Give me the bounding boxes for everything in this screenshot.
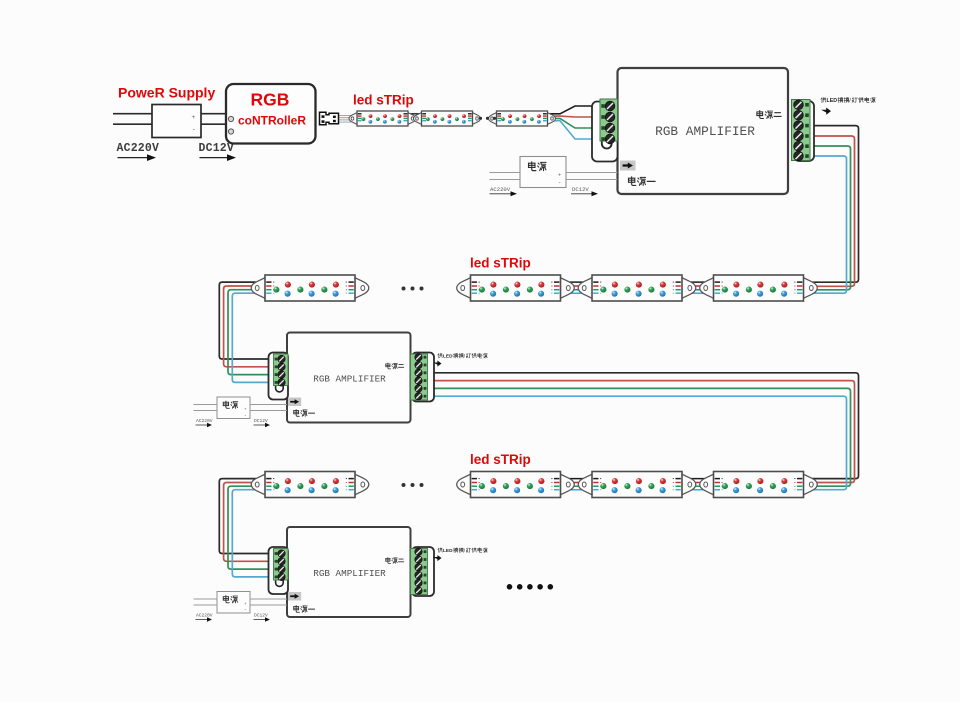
arrow AC220V [118,154,157,161]
wire link between strip1 modules [403,114,427,121]
power adapter row3 label [223,596,237,603]
wire link strip3 modules gap2 [677,479,719,490]
svg-text:DC12V: DC12V [254,613,268,619]
amplifier 1 output terminal housing [794,101,814,161]
amplifier 3 DC input icon [288,592,301,601]
wire amplifier1 output red to strip2 [808,136,855,286]
svg-text:DC12V: DC12V [572,186,589,193]
amplifier 3 output terminal housing [412,547,434,596]
amplifier 3 output terminal block [411,549,428,595]
arrow AC220V row3 adapter [196,617,213,621]
svg-text:+: + [244,407,247,412]
wire strip1 to amplifier1 input: green [549,118,603,128]
power adapter box row2 [217,397,250,419]
arrow AC220V row1 adapter [490,191,518,196]
amplifier 1 input terminal screws [605,101,615,144]
LED module row2 M2 [457,275,575,301]
amplifier 3 input terminal screws [278,550,285,581]
wire strip1 to amplifier1 input: red [549,115,603,118]
LED module row3 M4 [700,472,818,498]
RGB amplifier 1 box [618,68,789,194]
label LED-module/strip power (amp3) [438,548,488,554]
svg-text:RGB AMPLIFIER: RGB AMPLIFIER [655,124,755,139]
amplifier 1 output terminal block [792,100,811,161]
wire power adapter row1 to amplifier 1 [566,173,618,180]
amplifier 3 output terminal screws [415,548,422,594]
arrow DC12V row3 adapter [254,617,271,621]
wire mains to power adapter row3 [194,599,218,605]
svg-text:-: - [245,413,247,419]
wire mains to power adapter row1 [490,173,521,180]
wire AC mains input to power supply [113,114,152,125]
svg-text:led sTRip: led sTRip [353,93,414,108]
svg-text:led sTRip: led sTRip [470,256,531,271]
RGB amplifier 3 box [287,527,411,617]
svg-text:coNTRolleR: coNTRolleR [238,114,306,128]
wire strip1 to amplifier1 input: blue [549,121,603,139]
wire strip2 to amplifier2 input green [228,290,276,375]
wire strip3 to amplifier3 input black [219,479,276,554]
ellipsis dots row1 [479,117,496,120]
LED module row1 M3 [489,111,556,126]
amplifier 3 input terminal wire loop [276,580,284,586]
amplifier 1 input terminal housing [592,102,618,162]
amplifier 2 input terminal screws [278,355,285,386]
continuation dots bottom [507,584,553,590]
svg-text:RGB AMPLIFIER: RGB AMPLIFIER [313,568,386,579]
power adapter box row1 (dian yuan) [520,157,566,188]
LED module row3 M2 [457,472,575,498]
power adapter row2 label [223,401,237,408]
svg-text:-: - [559,180,561,187]
RGB amplifier 2 box [287,333,411,423]
amplifier 1 input terminal block [600,99,618,141]
arrow LED power out (amp3) [433,555,442,561]
label LED-module/strip power (amp2) [438,353,488,359]
svg-text:DC12V: DC12V [199,142,235,155]
amplifier 2 input terminal housing [269,353,289,400]
wire strip2 to amplifier2 input black [219,282,276,359]
svg-text:AC220V: AC220V [117,142,160,155]
svg-text:AC220V: AC220V [490,186,511,193]
amplifier 1 DC input icon [620,161,636,171]
amplifier 2 input terminal wire loop [276,386,284,392]
amplifier 1 input terminal wire loop [602,140,612,148]
svg-text:-: - [245,607,247,613]
RGB controller U1 [226,84,316,144]
amplifier 2 label power-out (dian yuan er) [386,363,404,369]
amplifier 3 input terminal block [274,549,289,581]
wire amplifier1 output green to strip2 [808,146,851,290]
svg-text:+: + [244,601,247,606]
svg-text:+: + [558,173,561,179]
power supply PSU box [152,105,201,138]
arrow LED power out (amp2) [433,361,442,367]
label LED-module/strip power (amp1) [821,97,875,104]
controller output connector plug [320,112,339,125]
LED module row1 M2 [414,111,481,126]
wire controller connector to led strip [339,116,352,123]
wire power adapter row3 to amplifier 3 [250,599,287,605]
LED module row3 M3 [578,472,696,498]
amplifier 2 input terminal block [274,354,289,386]
arrow DC12V row2 adapter [254,423,271,427]
amplifier 2 output terminal block [411,354,428,400]
wire amplifier2 output black to strip3 [427,373,859,479]
wire amplifier2 output blue to strip3 [427,396,847,490]
amplifier 1 output terminal screws [794,100,804,161]
wire power adapter row2 to amplifier 2 [250,405,287,411]
wire strip2 to amplifier2 input red [224,286,276,367]
LED module row2 M3 [578,275,696,301]
power adapter box row3 [217,592,250,614]
ellipsis dots row2 [402,287,424,291]
amplifier 1 label power-out (dian yuan er) [757,111,781,119]
svg-text:RGB: RGB [251,90,290,110]
svg-text:AC220V: AC220V [196,613,213,619]
wire amplifier2 output green to strip3 [427,388,851,486]
LED module row1 M1 [349,111,416,126]
amplifier 2 output terminal housing [412,353,434,402]
controller indicator buttons [228,116,233,121]
svg-text:DC12V: DC12V [254,418,268,424]
ellipsis dots row3 [402,483,424,487]
wire mains to power adapter row2 [194,405,218,411]
arrow LED power out (amp1) [821,108,831,115]
wire strip3 to amplifier3 input red [224,483,276,562]
wire strip1 to amplifier1 input: black [549,106,603,114]
svg-text:led sTRip: led sTRip [470,452,531,467]
wire link strip2 modules gap1 [555,282,597,293]
LED module row2 M1 [251,275,369,301]
amplifier 2 output terminal screws [415,354,422,400]
power adapter row1 label [529,162,547,171]
wire amplifier1 output blue to strip2 [808,156,847,293]
LED module row3 M1 [251,472,369,498]
svg-text:AC220V: AC220V [196,418,213,424]
amplifier 3 label power-in (dian yuan yi) [294,606,315,613]
wire strip3 to amplifier3 input green [228,486,276,569]
wire amplifier2 output red to strip3 [427,381,855,483]
arrow AC220V row2 adapter [196,423,213,427]
amplifier 3 input terminal housing [269,547,289,594]
LED module row2 M4 [700,275,818,301]
svg-text:PoweR Supply: PoweR Supply [118,85,215,101]
wire strip3 to amplifier3 input blue [232,490,276,577]
wire amplifier1 output black to strip2 [808,126,859,283]
amplifier 2 DC input icon [288,398,301,407]
arrow DC12V row1 adapter [571,191,598,196]
amplifier 3 label power-out (dian yuan er) [386,557,404,563]
wire power supply to RGB controller DC12V [201,114,226,125]
svg-text:+: + [192,114,196,121]
wire strip2 to amplifier2 input blue [232,293,276,382]
wire link strip2 modules gap2 [677,282,719,293]
amplifier 1 label power-in (dian yuan yi) [628,177,655,186]
amplifier 2 label power-in (dian yuan yi) [294,410,315,417]
svg-text:RGB AMPLIFIER: RGB AMPLIFIER [313,374,386,385]
wire link strip3 modules gap1 [555,479,597,490]
arrow DC12V [200,154,237,161]
